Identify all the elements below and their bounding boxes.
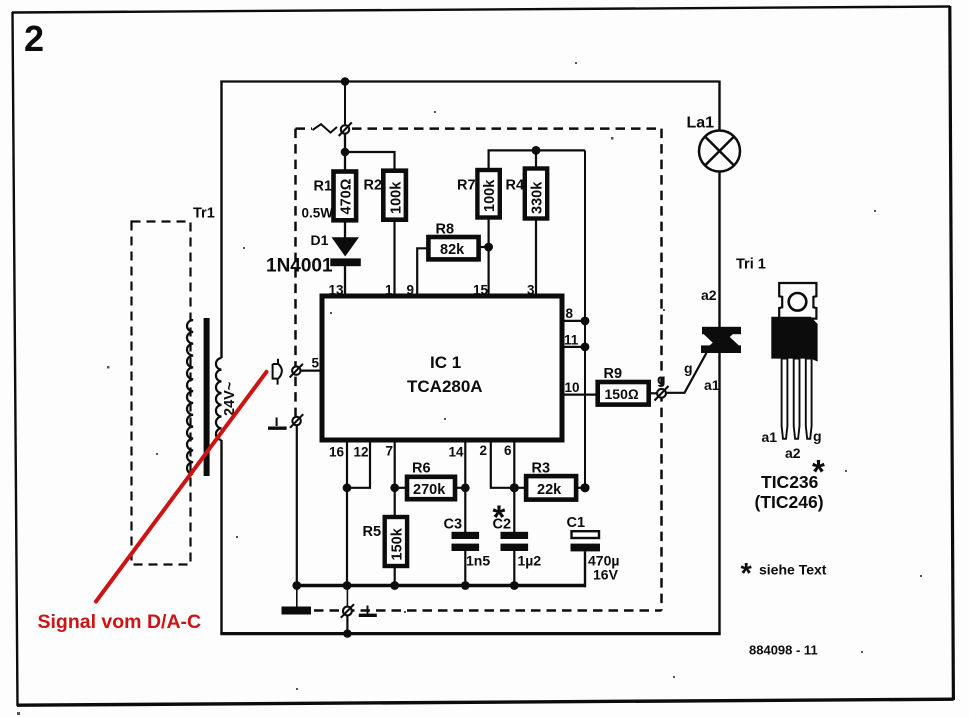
- svg-text:*: *: [741, 558, 753, 590]
- wire R4 top lead: [535, 150, 537, 168]
- svg-text:R3: R3: [532, 461, 551, 477]
- node rail C2: [510, 581, 519, 590]
- wire D1 to pin 13: [344, 266, 346, 298]
- node R3/C1/bus: [580, 483, 589, 492]
- pin 7 wire: [394, 440, 396, 517]
- svg-text:R1: R1: [314, 179, 333, 195]
- gate wire: [666, 353, 707, 393]
- wire triac to bottom rail: [718, 353, 720, 635]
- earth bar below rail: [296, 587, 298, 607]
- diode D1: [330, 237, 361, 266]
- wire R8 right to R7 lead: [479, 246, 489, 248]
- connector signal ground: [290, 414, 303, 428]
- node rail C3: [461, 581, 470, 590]
- wire R4 to pin 3: [535, 219, 537, 299]
- svg-text:1N4001: 1N4001: [266, 256, 333, 277]
- svg-text:100k: 100k: [388, 181, 404, 214]
- svg-text:12: 12: [354, 445, 369, 460]
- wire pin7 node to R6: [395, 487, 407, 489]
- node rail input: [292, 581, 301, 590]
- svg-text:11: 11: [564, 333, 579, 348]
- wire R2 to pin 1: [393, 220, 395, 298]
- ground symbol at input: [268, 418, 287, 428]
- wire node to R3: [514, 487, 526, 489]
- svg-text:R2: R2: [364, 178, 383, 194]
- triac Tri1: [701, 327, 741, 353]
- svg-text:3: 3: [527, 283, 535, 298]
- svg-text:g: g: [657, 371, 666, 387]
- wire C3 to rail: [464, 551, 466, 586]
- svg-text:a1: a1: [704, 377, 720, 393]
- svg-text:82k: 82k: [440, 242, 465, 258]
- wire input ground down to rail: [296, 425, 298, 585]
- pin 16 wire: [346, 440, 348, 586]
- svg-text:2: 2: [24, 18, 44, 59]
- node rail pin16: [343, 581, 352, 590]
- node R6/pin14/C3: [461, 483, 470, 492]
- wire R1 to D1: [344, 220, 346, 238]
- pin 6 wire: [513, 440, 515, 532]
- wire R6 to pin14 node: [455, 487, 465, 489]
- svg-text:IC 1: IC 1: [430, 353, 461, 372]
- svg-text:2: 2: [480, 443, 488, 458]
- transformer Tr1 dashed outline: [132, 222, 191, 565]
- resistor R8: [428, 237, 478, 259]
- wire R5 to rail: [394, 566, 396, 586]
- mains loop right wire upper: [718, 81, 720, 132]
- junction node top rail / R1 branch: [341, 77, 350, 86]
- dashed module boundary right: [660, 129, 663, 611]
- svg-text:Tri 1: Tri 1: [736, 257, 766, 273]
- svg-text:15: 15: [473, 283, 489, 298]
- node R1/R2: [341, 148, 350, 157]
- wire C2 to rail: [513, 551, 515, 586]
- pin 14 wire: [464, 440, 466, 532]
- svg-text:TIC236: TIC236: [761, 472, 819, 492]
- svg-text:R4: R4: [506, 178, 525, 194]
- node R8/R7: [484, 243, 493, 252]
- input terminal symbol: [273, 359, 282, 385]
- svg-text:C3: C3: [444, 517, 463, 533]
- svg-text:siehe Text: siehe Text: [759, 562, 827, 578]
- svg-text:(TIC246): (TIC246): [755, 492, 824, 512]
- svg-text:16V: 16V: [593, 567, 619, 583]
- wire R9 to gate connector: [649, 392, 657, 394]
- node pin7/R6: [390, 483, 399, 492]
- lamp La1: [699, 131, 740, 172]
- resistor R9: [598, 382, 649, 405]
- svg-text:C1: C1: [567, 515, 586, 531]
- svg-text:150k: 150k: [390, 527, 406, 560]
- dashed module boundary top: [296, 127, 662, 130]
- wire C1 to rail: [584, 551, 586, 587]
- wire R7 to pin 15: [488, 218, 490, 299]
- capacitor C1 electrolytic: [572, 531, 600, 538]
- wire R3 to bus node: [576, 487, 585, 489]
- svg-text:9: 9: [407, 283, 415, 298]
- svg-text:470Ω: 470Ω: [339, 178, 355, 214]
- resistor R1: [334, 172, 357, 221]
- svg-text:R8: R8: [436, 222, 455, 238]
- svg-text:22k: 22k: [537, 482, 562, 498]
- capacitor C2: [501, 532, 529, 551]
- triac package body: [771, 317, 817, 362]
- svg-text:1n5: 1n5: [466, 553, 490, 569]
- pin 2 wire: [491, 440, 515, 488]
- triac package mounting hole: [789, 293, 807, 311]
- pin 10 wire: [562, 394, 598, 396]
- wire connector to bottom rail: [346, 615, 348, 633]
- svg-text:g: g: [813, 428, 822, 444]
- wire top rail to connector: [344, 82, 346, 126]
- pin 12 wire: [347, 440, 370, 488]
- svg-text:a2: a2: [701, 287, 717, 303]
- svg-text:TCA280A: TCA280A: [407, 377, 483, 396]
- wire pin 9 to R8: [417, 248, 428, 298]
- transformer Tr1 primary winding: [187, 320, 193, 474]
- mains loop left wire: [220, 81, 222, 635]
- svg-text:16: 16: [329, 445, 345, 460]
- svg-text:100k: 100k: [482, 179, 498, 212]
- svg-text:5: 5: [312, 356, 320, 371]
- wire node to R1 top: [344, 152, 346, 172]
- resistor R2: [383, 171, 406, 220]
- resistor R3: [526, 476, 576, 500]
- dashed module boundary left: [294, 129, 297, 425]
- svg-text:270k: 270k: [413, 482, 446, 498]
- svg-text:*: *: [493, 499, 506, 536]
- svg-text:884098 - 11: 884098 - 11: [749, 643, 818, 658]
- svg-text:150Ω: 150Ω: [605, 386, 639, 402]
- svg-text:D1: D1: [311, 232, 329, 248]
- node pin 8: [581, 317, 590, 326]
- dashed module boundary bottom: [314, 609, 662, 612]
- wire connector to R1/R2 node: [344, 134, 346, 152]
- svg-text:R9: R9: [604, 366, 623, 382]
- wire node to R2 top: [345, 152, 395, 171]
- svg-text:La1: La1: [687, 115, 715, 132]
- node bottom rail: [343, 629, 351, 637]
- svg-text:6: 6: [504, 443, 512, 458]
- node R4 top: [532, 146, 541, 155]
- annotation red arrow: [96, 372, 267, 602]
- capacitor C3: [452, 532, 480, 551]
- svg-text:Signal vom D/A-C: Signal vom D/A-C: [38, 611, 202, 633]
- triac package TIC236 tab: [779, 283, 816, 319]
- svg-text:14: 14: [449, 445, 465, 460]
- node rail R5: [390, 581, 399, 590]
- connector gate: [655, 386, 669, 401]
- connector signal input pin5: [290, 364, 303, 378]
- svg-text:a2: a2: [785, 445, 801, 461]
- resistor R6: [407, 477, 455, 499]
- connector mains input: [339, 122, 352, 136]
- pin 5 wire: [301, 370, 323, 372]
- svg-text:10: 10: [565, 380, 580, 395]
- svg-text:a1: a1: [762, 429, 778, 445]
- op-amp / IC1 TCA280A body: [322, 296, 562, 440]
- svg-text:R7: R7: [457, 178, 476, 194]
- svg-text:g: g: [684, 360, 693, 376]
- pin 11 wire: [562, 346, 585, 348]
- resistor R4: [525, 169, 547, 219]
- mains squiggle symbol: [313, 124, 338, 132]
- svg-text:1µ2: 1µ2: [518, 553, 542, 569]
- svg-text:1: 1: [385, 283, 393, 298]
- svg-text:8: 8: [566, 306, 574, 321]
- node pin16/pin12: [343, 483, 352, 492]
- resistor R7: [477, 170, 499, 218]
- svg-text:13: 13: [329, 283, 345, 298]
- node pin6/pin2/R3/C2: [510, 483, 519, 492]
- svg-text:0.5W: 0.5W: [302, 206, 334, 221]
- node pin 11: [581, 343, 590, 352]
- svg-text:7: 7: [386, 444, 394, 459]
- ground symbol bottom: [367, 606, 369, 615]
- wire lamp to triac: [718, 172, 720, 329]
- svg-text:330k: 330k: [530, 181, 546, 214]
- pin 8 wire: [562, 320, 585, 322]
- triac package legs: [782, 359, 812, 439]
- ground rail: [297, 584, 585, 588]
- svg-text:R5: R5: [363, 524, 382, 540]
- mains loop top wire: [220, 80, 719, 82]
- transformer Tr1 secondary winding: [216, 358, 222, 440]
- svg-text:Tr1: Tr1: [193, 206, 215, 222]
- svg-text:R6: R6: [412, 461, 431, 477]
- bus wire pins 8/11 to R3/C1 node: [584, 150, 586, 487]
- resistor R5: [385, 517, 407, 566]
- connector ground bottom: [346, 587, 348, 607]
- mains loop bottom wire: [220, 632, 720, 635]
- transformer Tr1 core: [204, 318, 210, 476]
- wire R7/R4 top net: [489, 150, 585, 170]
